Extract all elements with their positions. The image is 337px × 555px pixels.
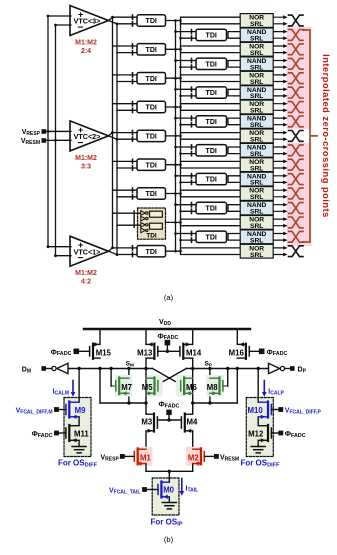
svg-text:M1:M2: M1:M2 bbox=[75, 40, 97, 47]
junction SP rail x=227.7 bbox=[226, 367, 229, 370]
junction SM rail x=146 bbox=[144, 367, 147, 370]
wire interpolation bus V1 bbox=[175, 21, 177, 252]
latch NOR SRL row 8 bbox=[240, 129, 273, 144]
svg-text:VRESM: VRESM bbox=[21, 138, 40, 146]
wire row 2 output fork pair bbox=[181, 46, 241, 53]
transistor M12 (cal NMOS) bbox=[258, 425, 271, 442]
svg-text:2:4: 2:4 bbox=[81, 48, 91, 55]
current arrow ITAIL bbox=[179, 479, 184, 496]
transistor M9 (cal PMOS) bbox=[66, 402, 79, 419]
wire PHI_FADC to M12 gate bbox=[271, 432, 278, 434]
latch NOR SRL row 10 bbox=[240, 158, 273, 173]
svg-text:VRESM: VRESM bbox=[220, 454, 239, 462]
TDI interpolator (left column, row 12) bbox=[137, 188, 166, 199]
current arrow ICALM bbox=[71, 381, 76, 397]
wire M4 source to M2 drain bbox=[192, 432, 194, 449]
terminal VRESP bbox=[120, 454, 125, 459]
wire DI- rail bbox=[100, 402, 146, 404]
wire SRL row 2 output arrows bbox=[274, 46, 284, 53]
wire M2 source to tail bbox=[192, 464, 194, 471]
svg-text:(a): (a) bbox=[164, 293, 174, 302]
svg-text:SRL: SRL bbox=[250, 93, 263, 100]
junction SM rail x=128.9 bbox=[127, 367, 130, 370]
wire SP rail bbox=[186, 368, 268, 370]
svg-text:M14: M14 bbox=[186, 349, 202, 358]
svg-text:4:2: 4:2 bbox=[81, 279, 91, 286]
svg-text:M3: M3 bbox=[141, 418, 152, 427]
svg-text:(b): (b) bbox=[164, 535, 174, 544]
junction row 0 on interpolation bus bbox=[174, 19, 177, 22]
junction SM rail x=79.1 bbox=[77, 367, 80, 370]
node zero-crossing waveform row 6 bbox=[289, 102, 304, 113]
wire M7 gate to SM bbox=[110, 369, 112, 387]
junction row 11 input taps bbox=[174, 175, 177, 178]
wire SRL row 14 output arrows bbox=[274, 219, 284, 226]
svg-text:TDI: TDI bbox=[206, 206, 217, 213]
svg-text:M10: M10 bbox=[248, 406, 264, 415]
junction VTC<l> inputs bbox=[47, 245, 50, 248]
latch NOR SRL row 2 bbox=[240, 42, 273, 57]
transistor M15 (PMOS precharge) bbox=[90, 342, 100, 359]
wire VRESP to M1 gate bbox=[125, 455, 134, 457]
transistor M6 (latch NMOS) bbox=[181, 378, 193, 396]
wire TDI row 16 output bbox=[166, 250, 181, 252]
wire TDI row 8 output bbox=[166, 135, 181, 137]
svg-text:TDI: TDI bbox=[146, 191, 157, 198]
wire VTC<l> + input bbox=[48, 246, 71, 248]
wire SRL row 6 output arrows bbox=[274, 104, 284, 111]
junction VTC<l> output bus bbox=[111, 16, 114, 19]
latch NOR SRL row 12 bbox=[240, 187, 273, 202]
wire TDI row 11 output fork pair bbox=[228, 176, 240, 183]
wire SRL row 5 output arrows bbox=[274, 89, 284, 96]
node zero-crossing waveform row 4 bbox=[289, 73, 304, 84]
junction VTC<l> inputs bbox=[47, 15, 50, 18]
svg-text:ITAIL: ITAIL bbox=[186, 486, 199, 494]
pin TDI row 3 input ticks bbox=[191, 58, 193, 69]
wire SRL row 12 output arrows bbox=[274, 190, 284, 197]
wire TDI row 4 output bbox=[166, 77, 181, 79]
wire M15 gate bbox=[79, 350, 90, 352]
terminal VRESM bbox=[214, 454, 219, 459]
junction row 10 on interpolation bus bbox=[174, 163, 177, 166]
wire VRESP to VTC2 bbox=[46, 131, 70, 133]
wire VDD to M16 drain bbox=[236, 329, 238, 344]
current arrow ICALP bbox=[262, 381, 267, 397]
transistor M3 (NMOS switch) bbox=[146, 414, 157, 433]
wire TDI row 1 inputs from bus bbox=[176, 32, 197, 39]
svg-text:VFCAL_DIFF,M: VFCAL_DIFF,M bbox=[16, 408, 53, 416]
svg-text:SRL: SRL bbox=[250, 165, 263, 172]
latch NOR SRL row 16 bbox=[240, 244, 273, 258]
svg-text:TDI: TDI bbox=[146, 162, 157, 169]
latch NAND SRL row 7 bbox=[240, 115, 273, 130]
node zero-crossing waveform row 2 bbox=[289, 44, 304, 55]
transistor M4 (NMOS switch) bbox=[181, 414, 192, 433]
transistor M13 (PMOS precharge) bbox=[146, 342, 158, 359]
wire M7 branch vertical bbox=[128, 369, 130, 404]
TDI interpolator (right column, row 3) bbox=[196, 58, 227, 69]
junction SP rail x=237.3 bbox=[236, 367, 239, 370]
wire PHI_FADC mid drop bbox=[168, 414, 170, 420]
latch NOR SRL row 4 bbox=[240, 71, 273, 86]
junction SM rail x=100 bbox=[98, 367, 101, 370]
highlight box behind M8 bbox=[206, 375, 224, 397]
latch NAND SRL row 3 bbox=[240, 57, 273, 72]
junction SP rail x=209.9 bbox=[208, 367, 211, 370]
pin TDI row 9 input ticks bbox=[191, 145, 193, 156]
svg-text:SRL: SRL bbox=[250, 180, 263, 187]
terminal PHI_FADC (M12) bbox=[278, 431, 283, 436]
pin TDI row 10 input ticks bbox=[132, 159, 134, 170]
wire SRL row 9 output arrows bbox=[274, 147, 284, 154]
wire VTC<l> + input bbox=[48, 130, 71, 132]
inverter 2 inside expanded TDI bbox=[141, 216, 146, 221]
ground below M11 bbox=[72, 447, 86, 453]
junction DI+ rail / M4 drain bbox=[191, 401, 194, 404]
wire VTC<l> - input bbox=[56, 139, 72, 141]
node zero-crossing waveform row 15 bbox=[289, 231, 304, 242]
TDI interpolator (left column, row 6) bbox=[137, 101, 166, 112]
node zero-crossing waveform row 9 bbox=[289, 145, 304, 156]
svg-text:M8: M8 bbox=[207, 383, 218, 392]
svg-text:SRL: SRL bbox=[250, 237, 263, 244]
wire VRESP bus vertical bbox=[47, 16, 49, 247]
latch NAND SRL row 11 bbox=[240, 172, 273, 187]
wire TDI row 15 inputs from bus bbox=[176, 234, 197, 241]
svg-text:M4: M4 bbox=[187, 418, 198, 427]
wire TDI row 7 output fork pair bbox=[228, 118, 240, 125]
wire M16 source to DI+ rail bbox=[236, 369, 238, 404]
wire TDI row 11 inputs from bus bbox=[176, 176, 197, 183]
TDI interpolator (left column, row 16) bbox=[137, 246, 166, 257]
wire DI+ rail bbox=[193, 402, 238, 404]
wire cross-couple SM to M6 gate bbox=[153, 369, 181, 385]
wire SRL row 10 output arrows bbox=[274, 161, 284, 168]
wire M8 gate stub bbox=[223, 385, 228, 387]
wire row 10 output fork pair bbox=[181, 161, 241, 168]
wire M11 source to ground bbox=[78, 441, 80, 446]
transistor M2 (input NMOS) bbox=[193, 449, 205, 466]
wire TDI row 0 output bbox=[166, 20, 181, 22]
wire VRESM to M2 gate bbox=[204, 455, 213, 457]
VTC comparator VTC<l> bbox=[70, 6, 109, 36]
svg-text:M15: M15 bbox=[96, 349, 112, 358]
node zero-crossing waveform row 12 bbox=[289, 188, 304, 199]
wire SM rail bbox=[68, 368, 153, 370]
highlight box behind M5 bbox=[147, 375, 163, 397]
svg-text:M16: M16 bbox=[229, 349, 245, 358]
svg-text:TDI: TDI bbox=[146, 249, 157, 256]
svg-text:M9: M9 bbox=[75, 406, 86, 415]
wire TDI row 4 inputs bbox=[113, 75, 138, 82]
junction SP rail x=258.2 bbox=[257, 367, 260, 370]
junction M13/M14 gate node bbox=[166, 350, 169, 353]
svg-text:TDI: TDI bbox=[206, 61, 217, 68]
wire M8 branch vertical bbox=[209, 369, 211, 404]
wire M15 source to DI- rail bbox=[99, 369, 101, 404]
pin TDI row 0 input ticks bbox=[132, 15, 134, 26]
svg-text:TDI: TDI bbox=[206, 177, 217, 184]
transistor M10 (cal PMOS) bbox=[258, 402, 271, 419]
TDI interpolator (left column, row 8) bbox=[137, 130, 166, 141]
svg-text:TDI: TDI bbox=[146, 134, 157, 141]
svg-text:SRL: SRL bbox=[250, 151, 263, 158]
TDI interpolator (right column, row 13) bbox=[196, 202, 227, 213]
wire row 0 output fork pair bbox=[181, 17, 241, 24]
TDI interpolator (right column, row 7) bbox=[196, 116, 227, 127]
wire M12 source to ground bbox=[257, 441, 259, 446]
wire SRL row 7 output arrows bbox=[274, 118, 284, 125]
transistor M7 (latch NMOS) bbox=[116, 378, 129, 396]
svg-text:SRL: SRL bbox=[250, 79, 263, 86]
wire PHI_FADC to M11 gate bbox=[59, 432, 66, 434]
junction row 9 input taps bbox=[174, 146, 177, 149]
wire PHI_FADC center drop bbox=[166, 345, 168, 351]
wire VTC<l> output fork bbox=[109, 17, 118, 24]
wire VDD to M14 drain bbox=[192, 329, 194, 344]
node highlight band (interpolated region upper) bbox=[287, 27, 312, 130]
svg-text:TDI: TDI bbox=[146, 76, 157, 83]
svg-text:TDI: TDI bbox=[206, 234, 217, 241]
wire TDI row 5 output fork pair bbox=[228, 89, 240, 96]
brace for interpolated zero-crossing points bbox=[303, 30, 317, 242]
calibration box For OS_IP bbox=[152, 478, 179, 515]
svg-text:M1:M2: M1:M2 bbox=[75, 155, 97, 162]
wire to DM terminal bbox=[46, 368, 52, 370]
node zero-crossing waveform row 14 bbox=[289, 217, 304, 228]
junction tail node bbox=[168, 470, 171, 473]
wire M1 source to tail bbox=[145, 464, 147, 471]
TDI interpolator (left column, row 10) bbox=[137, 159, 166, 170]
wire to DP terminal bbox=[285, 368, 290, 370]
junction DI- rail / M3 drain bbox=[144, 401, 147, 404]
wire TDI row 6 output bbox=[166, 106, 181, 108]
calibration box For OS_DIFF (right) bbox=[246, 398, 273, 457]
wire TDI row 15 output fork pair bbox=[228, 234, 240, 241]
latch NOR SRL row 6 bbox=[240, 100, 273, 115]
wire TDI row 12 output bbox=[166, 193, 181, 195]
wire expanded TDI output fork pair bbox=[181, 219, 241, 226]
svg-text:TDI: TDI bbox=[206, 90, 217, 97]
wire VTC<l> + input bbox=[48, 15, 71, 17]
svg-text:TDI: TDI bbox=[146, 105, 157, 112]
wire VTC<l> output fork bbox=[109, 133, 118, 140]
wire VTC<l> - input bbox=[56, 24, 72, 26]
inverter 1 inside expanded TDI bbox=[141, 211, 146, 216]
inverter DM output bbox=[57, 363, 68, 373]
junction row 3 input taps bbox=[174, 59, 177, 62]
latch NAND SRL row 13 bbox=[240, 201, 273, 216]
svg-text:SRL: SRL bbox=[250, 137, 263, 144]
wire ICALP branch bbox=[257, 369, 259, 403]
svg-text:ICALP: ICALP bbox=[268, 389, 284, 397]
wire VRESM to VTC2 bbox=[46, 139, 70, 141]
wire SRL row 15 output arrows bbox=[274, 234, 284, 241]
junction VTC<l> output bus bbox=[111, 131, 114, 134]
svg-text:SRL: SRL bbox=[250, 64, 263, 71]
junction row 1 input taps bbox=[174, 30, 177, 33]
wire tail to M0 drain bbox=[168, 471, 170, 482]
transistor M14 (PMOS precharge) bbox=[180, 342, 193, 359]
wire tail rail bbox=[146, 470, 193, 472]
wire TDI row 1 output fork pair bbox=[228, 32, 240, 39]
terminal PHI_FADC (M3/M4 gates) bbox=[166, 410, 171, 415]
junction VTC<l> inputs bbox=[47, 130, 50, 133]
wire TDI row 8 inputs bbox=[113, 133, 138, 140]
svg-text:DM: DM bbox=[22, 367, 31, 375]
TDI interpolator (right column, row 11) bbox=[196, 173, 227, 184]
latch NAND SRL row 9 bbox=[240, 143, 273, 158]
svg-text:VTC<3>: VTC<3> bbox=[74, 17, 101, 26]
terminal PHI_FADC (M16 gate) bbox=[259, 349, 265, 355]
node zero-crossing waveform row 0 bbox=[289, 15, 304, 26]
highlight box behind M2 bbox=[186, 447, 203, 466]
svg-text:SRL: SRL bbox=[250, 194, 263, 201]
pin TDI row 13 input ticks bbox=[191, 203, 193, 214]
pin TDI row 2 input ticks bbox=[132, 44, 134, 55]
wire SRL row 16 output arrows bbox=[274, 248, 284, 255]
wire M7 gate stub bbox=[111, 385, 116, 387]
terminal VFCAL_TAIL bbox=[142, 487, 147, 492]
wire SRL row 11 output arrows bbox=[274, 176, 284, 183]
wire SRL row 13 output arrows bbox=[274, 205, 284, 212]
TDI interpolator (right column, row 9) bbox=[196, 145, 227, 156]
junction row 2 on interpolation bus bbox=[174, 48, 177, 51]
terminal DP bbox=[290, 366, 295, 371]
wire VFCAL_TAIL to M0 gate bbox=[147, 489, 158, 491]
node zero-crossing waveform row 5 bbox=[289, 87, 304, 98]
ground below M0 bbox=[162, 503, 176, 509]
wire cross-couple SP to M5 gate bbox=[158, 369, 186, 385]
svg-text:M11: M11 bbox=[74, 429, 89, 438]
pin TDI row 11 input ticks bbox=[191, 174, 193, 185]
transistor M1 (input NMOS) bbox=[134, 449, 146, 466]
node zero-crossing waveform row 13 bbox=[289, 203, 304, 214]
TDI interpolator (right column, row 1) bbox=[196, 29, 227, 40]
calibration box For OS_DIFF (left) bbox=[64, 398, 91, 457]
wire expanded TDI inputs bbox=[113, 213, 141, 225]
wire TDI row 10 output bbox=[166, 164, 181, 166]
svg-text:VFCAL_TAIL: VFCAL_TAIL bbox=[109, 488, 141, 496]
junction row 15 input taps bbox=[174, 232, 177, 235]
node zero-crossing waveform row 1 bbox=[289, 30, 304, 41]
node zero-crossing waveform row 16 bbox=[289, 246, 304, 257]
svg-text:SRL: SRL bbox=[250, 21, 263, 28]
wire row 6 output fork pair bbox=[181, 104, 241, 111]
svg-text:VTC<1>: VTC<1> bbox=[74, 247, 101, 256]
terminal PHI_FADC (M13/M14 gates) bbox=[165, 340, 171, 346]
transistor M0 (tail NMOS) bbox=[158, 482, 169, 499]
svg-text:M0: M0 bbox=[163, 485, 174, 494]
junction row 13 input taps bbox=[174, 203, 177, 206]
svg-text:M1: M1 bbox=[140, 453, 151, 462]
pin TDI row 6 input ticks bbox=[132, 102, 134, 113]
TDI interpolator (left column, row 0) bbox=[137, 15, 166, 26]
junction SP rail x=192.7 bbox=[191, 367, 194, 370]
junction SM rail x=111.1 bbox=[109, 367, 112, 370]
transistor M8 (latch NMOS) bbox=[210, 378, 223, 396]
terminal PHI_FADC (M15 gate) bbox=[74, 349, 80, 355]
svg-text:TDI: TDI bbox=[146, 18, 157, 25]
junction M7 source on DI- rail bbox=[127, 401, 130, 404]
ground below M12 bbox=[251, 447, 265, 453]
svg-text:VDD: VDD bbox=[159, 319, 171, 327]
wire TDI row 2 inputs bbox=[113, 46, 138, 53]
wire TDI row 7 inputs from bus bbox=[176, 118, 197, 125]
wire M13-M14 gates bbox=[158, 350, 180, 352]
wire VFCAL_DIFF_M to M9 gate bbox=[59, 409, 66, 411]
svg-text:TDI: TDI bbox=[146, 232, 157, 239]
node zero-crossing waveform row 8 bbox=[289, 131, 304, 142]
wire M0 source to ground bbox=[168, 498, 170, 503]
highlight box behind M6 bbox=[176, 375, 192, 397]
svg-text:TDI: TDI bbox=[146, 47, 157, 54]
terminal DM bbox=[41, 366, 46, 371]
svg-text:SRL: SRL bbox=[250, 122, 263, 129]
wire SRL row 3 output arrows bbox=[274, 61, 284, 68]
svg-text:M13: M13 bbox=[137, 349, 153, 358]
delay element lower inside expanded TDI bbox=[150, 223, 163, 229]
transistor M16 (PMOS precharge) bbox=[237, 342, 249, 359]
wire interpolation bus V2 bbox=[180, 21, 182, 252]
svg-text:ICALM: ICALM bbox=[53, 389, 69, 397]
junction row 8 on interpolation bus bbox=[174, 135, 177, 138]
wire VFCAL_DIFF_P to M10 gate bbox=[271, 409, 278, 411]
node highlight band (interpolated region lower) bbox=[287, 143, 312, 247]
svg-text:M5: M5 bbox=[142, 383, 153, 392]
wire VTC<l> - input bbox=[56, 255, 72, 257]
node zero-crossing waveform row 3 bbox=[289, 58, 304, 69]
pin TDI row 5 input ticks bbox=[191, 87, 193, 98]
highlight box behind M7 bbox=[115, 375, 133, 397]
pin TDI row 12 input ticks bbox=[132, 188, 134, 199]
transistor M5 (latch NMOS) bbox=[146, 378, 158, 396]
TDI interpolator (right column, row 15) bbox=[196, 231, 227, 242]
junction row 4 on interpolation bus bbox=[174, 77, 177, 80]
terminal VFCAL_DIFF_P bbox=[278, 407, 283, 412]
wire TDI row 12 inputs bbox=[113, 190, 138, 197]
latch NAND SRL row 5 bbox=[240, 86, 273, 101]
svg-text:Interpolated zero-crossing poi: Interpolated zero-crossing points bbox=[321, 54, 331, 218]
terminal PHI_FADC (M11) bbox=[54, 431, 59, 436]
wire SRL row 0 output arrows bbox=[274, 17, 284, 24]
wire SRL row 8 output arrows bbox=[274, 133, 284, 140]
TDI interpolator (left column, row 4) bbox=[137, 73, 166, 84]
junction row 14 on interpolation bus bbox=[174, 221, 177, 224]
wire TDI row 9 output fork pair bbox=[228, 147, 240, 154]
wire VTC<l> output fork bbox=[109, 248, 118, 255]
wire column M14-M6-M4 vertical bbox=[192, 359, 194, 414]
wire TDI row 0 inputs bbox=[113, 17, 138, 24]
VTC comparator VTC<l> bbox=[70, 236, 109, 266]
pin TDI row 16 input ticks bbox=[132, 246, 134, 257]
TDI interpolator (left column, row 2) bbox=[137, 44, 166, 55]
wire TDI row 5 inputs from bus bbox=[176, 89, 197, 96]
wire row 12 output fork pair bbox=[181, 190, 241, 197]
svg-text:DP: DP bbox=[298, 367, 307, 375]
wire TDI row 2 output bbox=[166, 48, 181, 50]
wire TDI row 13 output fork pair bbox=[228, 205, 240, 212]
node zero-crossing waveform row 7 bbox=[289, 116, 304, 127]
latch NAND SRL row 1 bbox=[240, 28, 273, 43]
svg-text:SRL: SRL bbox=[250, 223, 263, 230]
svg-text:SRL: SRL bbox=[250, 36, 263, 43]
wire M16 gate bbox=[249, 350, 259, 352]
transistor M11 (cal NMOS) bbox=[66, 425, 79, 442]
junction row 16 on interpolation bus bbox=[174, 250, 177, 253]
node zero-crossing waveform row 10 bbox=[289, 159, 304, 170]
